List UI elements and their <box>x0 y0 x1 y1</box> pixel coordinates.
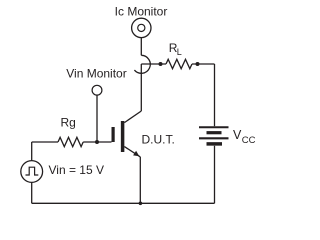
node: junction dot right of RL <box>196 62 200 66</box>
svg-text:Vin = 15 V: Vin = 15 V <box>49 163 105 177</box>
wire: top horizontal left of RL <box>141 63 166 65</box>
pulse source waveform glyph <box>26 167 39 175</box>
svg-text:D.U.T.: D.U.T. <box>142 133 175 147</box>
svg-text:Rg: Rg <box>61 116 76 130</box>
svg-text:L: L <box>177 47 182 57</box>
resistor RL zigzag <box>166 59 192 68</box>
transistor Q1 emitter diagonal <box>124 147 140 157</box>
wire: probe stem <box>140 38 142 56</box>
wire: top horizontal right of RL <box>192 63 215 65</box>
wire: battery negative to bottom rail <box>214 146 216 204</box>
node: base/gate junction dot <box>95 140 99 144</box>
pulse source V1 circle <box>21 161 43 183</box>
wire: gate wire right of Rg <box>83 141 111 143</box>
svg-text:Vin Monitor: Vin Monitor <box>66 67 126 81</box>
wire: Vin monitor stem <box>96 95 98 142</box>
current probe loop around collector wire <box>134 55 150 73</box>
battery VCC plate 1 (long) <box>199 126 229 128</box>
wire: source bottom stem <box>31 182 33 203</box>
wire: left vertical from source <box>31 142 33 161</box>
Vin Monitor terminal circle <box>92 85 102 95</box>
svg-text:Ic Monitor: Ic Monitor <box>115 5 168 19</box>
wire: emitter vertical to rail <box>139 157 141 203</box>
wire: gate wire left of Rg <box>32 141 58 143</box>
transistor Q1 emitter arrow <box>133 151 139 157</box>
current probe meter (Ic Monitor) outer circle <box>132 18 151 37</box>
battery VCC plate 4 (short thick) <box>207 142 223 146</box>
resistor Rg zigzag <box>58 137 83 146</box>
svg-text:CC: CC <box>242 135 256 146</box>
transistor Q1 gate bar <box>111 127 114 142</box>
node: junction dot left of RL <box>159 62 163 66</box>
svg-text:V: V <box>233 128 242 142</box>
transistor Q1 (D.U.T.) collector diagonal <box>124 111 141 123</box>
wire: right vertical to battery <box>214 64 216 126</box>
node: emitter/rail junction dot <box>139 202 143 206</box>
battery VCC plate 3 (long) <box>199 137 229 139</box>
transistor Q1 body bar <box>121 121 125 152</box>
wire: collector vertical (corner to transistor) <box>140 64 142 111</box>
current probe meter inner circle <box>138 24 145 31</box>
wire: bottom rail <box>32 202 215 204</box>
battery VCC plate 2 (short thick) <box>207 131 222 134</box>
